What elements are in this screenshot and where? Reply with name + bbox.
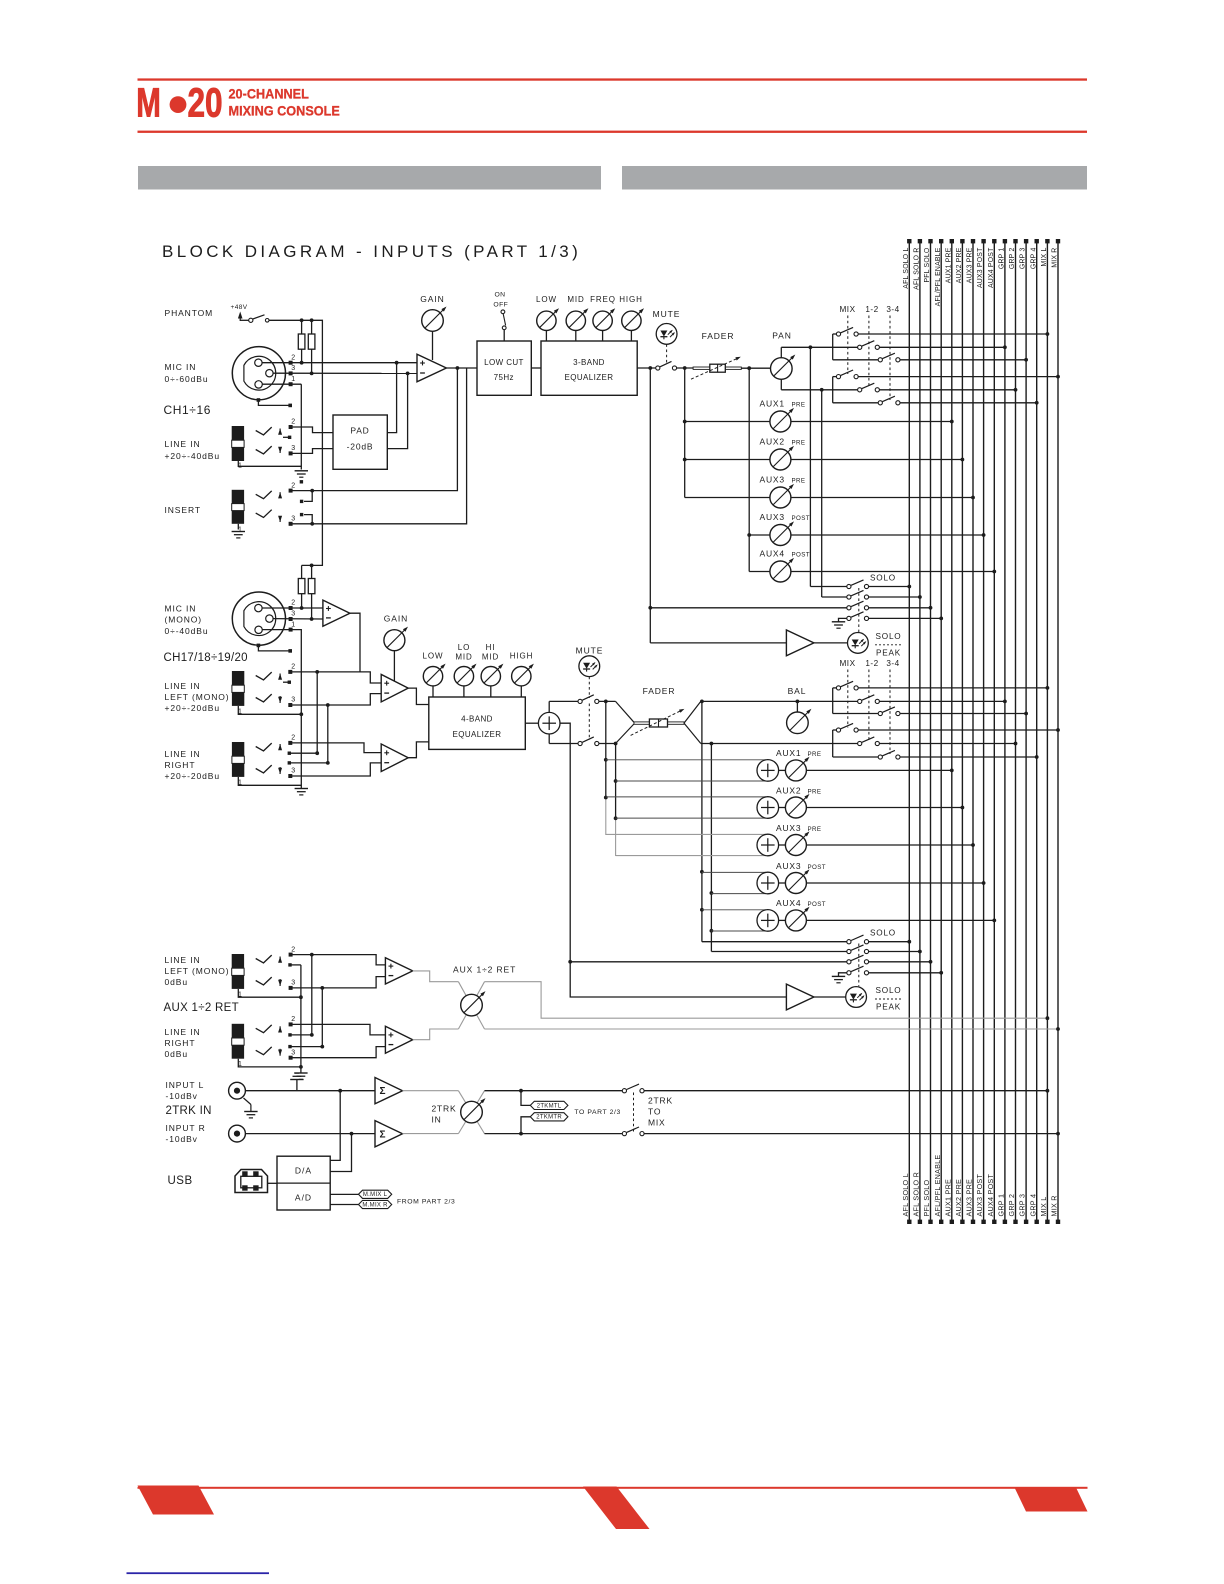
wire amp1 to 4band EQ — [408, 688, 429, 704]
svg-text:BAL: BAL — [788, 686, 807, 696]
wire PAD out hot — [387, 361, 398, 433]
svg-text:0÷-40dBu: 0÷-40dBu — [165, 626, 209, 636]
resistor phantom mono R3 — [298, 565, 305, 609]
sum amp 2TRK R — [375, 1121, 403, 1147]
bus line AFL SOLO L — [901, 239, 912, 1224]
label LINE IN LEFT MONO — [165, 681, 230, 713]
svg-text:RIGHT: RIGHT — [165, 1038, 196, 1048]
svg-text:2TKMTR: 2TKMTR — [536, 1115, 562, 1121]
footer red rule — [138, 1487, 1088, 1489]
svg-text:OFF: OFF — [493, 302, 508, 309]
svg-text:HIGH: HIGH — [510, 652, 534, 661]
ground mono line jacks — [295, 789, 308, 795]
logo subtitle 20-CHANNEL MIXING CONSOLE — [229, 86, 341, 119]
svg-text:AFL SOLO R: AFL SOLO R — [914, 248, 921, 290]
svg-text:GRP 1: GRP 1 — [997, 1194, 1006, 1217]
svg-text:3-4: 3-4 — [886, 659, 899, 668]
ground insert — [232, 532, 245, 538]
wire aux ret to MIX R bus — [485, 1027, 1060, 1031]
mute switch L MONO — [578, 695, 599, 704]
MIX 1-2 3-4 switch labels CH1-16 — [839, 305, 899, 400]
wire post-fade feed CH1-16 — [748, 368, 750, 571]
svg-text:2: 2 — [291, 354, 295, 361]
svg-text:MUTE: MUTE — [653, 309, 681, 319]
LED MUTE CH1-16 — [653, 309, 681, 365]
svg-text:2TKMTL: 2TKMTL — [537, 1103, 562, 1109]
wire 2trk R to MIX R bus — [644, 1132, 1060, 1136]
svg-text:MIXING CONSOLE: MIXING CONSOLE — [229, 103, 341, 119]
svg-text:AUX1 PRE: AUX1 PRE — [943, 1179, 952, 1217]
knob AUX3 PRE CH1-16 — [685, 474, 975, 508]
wire EQ to sum — [525, 722, 538, 724]
fader CH1-16 — [691, 331, 741, 379]
svg-text:+20÷-40dBu: +20÷-40dBu — [165, 451, 221, 461]
svg-text:MIX: MIX — [648, 1118, 666, 1128]
svg-text:AUX3 POST: AUX3 POST — [977, 247, 984, 288]
knob GAIN MONO — [384, 614, 408, 682]
svg-text:USB: USB — [168, 1175, 193, 1187]
wire 2trk R to cross — [403, 1133, 459, 1135]
XLR connector MIC IN MONO — [232, 592, 285, 645]
svg-text:LINE IN: LINE IN — [165, 955, 201, 965]
label INPUT L -10dBv — [166, 1080, 205, 1101]
label LINE IN LEFT 0dBu — [165, 955, 230, 987]
svg-text:(MONO): (MONO) — [165, 615, 203, 625]
sum amp 2TRK L — [375, 1078, 403, 1104]
svg-text:PRE: PRE — [808, 751, 822, 758]
svg-text:GAIN: GAIN — [384, 614, 408, 624]
svg-text:3: 3 — [291, 611, 295, 618]
resistor phantom R2 — [308, 320, 315, 375]
svg-text:Σ: Σ — [380, 1086, 386, 1097]
svg-text:INPUT L: INPUT L — [166, 1080, 205, 1090]
svg-text:MIX R: MIX R — [1052, 248, 1059, 268]
jack INSERT — [232, 480, 314, 533]
XLR pin 2 wire to preamp + — [263, 354, 418, 364]
svg-text:2TRK: 2TRK — [648, 1095, 673, 1105]
svg-text:TO: TO — [648, 1107, 661, 1117]
wire DA out L — [330, 1091, 340, 1161]
svg-text:0÷-60dBu: 0÷-60dBu — [165, 374, 209, 384]
op-amp solo CH1-16 — [650, 630, 847, 656]
label LINE IN +20--40dBu — [165, 439, 221, 461]
svg-text:0dBu: 0dBu — [165, 1049, 188, 1059]
wire aux ret R tip to amp — [291, 1024, 386, 1035]
knob AUX2 PRE CH1-16 — [683, 436, 965, 470]
bus line AFL/PFL ENABLE — [933, 239, 944, 1224]
svg-text:LOW: LOW — [536, 295, 557, 304]
solo switch group CH1-16 — [648, 574, 943, 633]
knob AUX2 PRE MONO with sum — [606, 785, 965, 818]
svg-text:AUX3: AUX3 — [760, 474, 785, 484]
svg-text:20-CHANNEL: 20-CHANNEL — [229, 86, 309, 102]
wire aux ret L ring to amp — [291, 977, 386, 990]
wire 2trk L to switch — [485, 1089, 623, 1093]
svg-text:GAIN: GAIN — [420, 294, 444, 304]
svg-text:2: 2 — [291, 1016, 295, 1023]
knob AUX3 POST CH1-16 — [747, 512, 985, 546]
svg-text:HI: HI — [486, 643, 496, 652]
header top rule — [138, 78, 1088, 80]
wire R tip to amp2 — [290, 743, 381, 753]
XLR mono shell wire — [257, 644, 292, 653]
wire pre-fade feed CH1-16 — [649, 368, 651, 643]
footer red parallelogram left — [138, 1486, 215, 1515]
svg-text:MIX: MIX — [839, 305, 855, 314]
svg-text:AFL/PFL ENABLE: AFL/PFL ENABLE — [935, 247, 942, 306]
svg-text:MIX L: MIX L — [1039, 1196, 1048, 1216]
XLR connector MIC IN CH1-16 — [232, 347, 285, 400]
svg-text:MIC IN: MIC IN — [165, 362, 197, 372]
svg-text:LOW CUT: LOW CUT — [484, 358, 524, 367]
jack LINE IN RIGHT — [232, 735, 328, 787]
svg-text:AFL SOLO L: AFL SOLO L — [903, 248, 910, 289]
knob GAIN CH1-16 — [420, 294, 446, 360]
svg-text:MUTE: MUTE — [576, 646, 604, 656]
svg-text:MIX R: MIX R — [1050, 1195, 1059, 1216]
svg-text:PAN: PAN — [772, 331, 792, 341]
wire mic preamp out — [350, 613, 360, 672]
svg-text:POST: POST — [792, 551, 810, 558]
wire pre-fade L feed MONO — [604, 701, 608, 835]
svg-text:GRP 3: GRP 3 — [1018, 1194, 1027, 1217]
wire line ring to PAD — [291, 449, 333, 454]
svg-text:AUX3: AUX3 — [760, 512, 785, 522]
svg-text:CH17/18÷19/20: CH17/18÷19/20 — [164, 652, 248, 664]
svg-text:LEFT (MONO): LEFT (MONO) — [165, 966, 230, 976]
knob LOW eq MONO — [423, 652, 446, 698]
label MIC IN 0--60dBu — [165, 362, 209, 384]
svg-text:3: 3 — [291, 768, 295, 775]
svg-text:3: 3 — [291, 445, 295, 452]
knob HIGH eq CH1-16 — [619, 295, 644, 341]
knob AUX4 POST CH1-16 — [749, 548, 996, 582]
label 2TRK IN knob — [432, 1104, 457, 1125]
tag M.MIX L — [330, 1190, 392, 1198]
wire fader L out — [700, 700, 833, 704]
MIX switch group MONO — [833, 681, 1060, 759]
svg-text:GRP 4: GRP 4 — [1030, 248, 1037, 270]
wire preamp out to LOW CUT — [446, 366, 477, 370]
knob 2TRK IN — [458, 1091, 485, 1134]
wire sum split LR — [549, 701, 578, 743]
svg-text:MIX L: MIX L — [1041, 248, 1048, 267]
knob HI MID eq MONO — [481, 643, 503, 697]
svg-text:20: 20 — [188, 80, 223, 126]
label MIC IN MONO — [165, 604, 209, 637]
jack LINE IN RIGHT aux ret — [232, 1016, 323, 1069]
PAD -20dB box — [333, 415, 387, 469]
svg-text:GRP 4: GRP 4 — [1028, 1194, 1037, 1217]
svg-text:AUX2 PRE: AUX2 PRE — [954, 1179, 963, 1217]
svg-text:+20÷-20dBu: +20÷-20dBu — [165, 771, 221, 781]
bus line MIX L — [1039, 239, 1050, 1224]
svg-text:POST: POST — [808, 901, 826, 908]
svg-text:AUX 1÷2 RET: AUX 1÷2 RET — [453, 965, 516, 975]
svg-text:MID: MID — [455, 653, 472, 662]
knob BAL — [787, 686, 812, 734]
svg-text:2: 2 — [291, 482, 295, 489]
wire pre-fade R feed MONO — [614, 744, 618, 857]
svg-text:AFL SOLO R: AFL SOLO R — [912, 1172, 921, 1217]
wire 2trk R to switch — [485, 1132, 623, 1136]
svg-text:AUX1: AUX1 — [760, 398, 785, 408]
svg-text:HIGH: HIGH — [619, 295, 643, 304]
tag 2TKMTL — [521, 1091, 568, 1110]
wire amp2 to 4band EQ — [408, 742, 429, 758]
knob AUX1 PRE MONO with sum — [606, 748, 954, 781]
wire aux ret to MIX L bus — [485, 982, 1050, 1020]
wire cross aux ret tip — [310, 955, 314, 1037]
bus line AUX3 PRE — [965, 239, 976, 1224]
ground line-in CH1-16 — [295, 471, 308, 477]
jack LINE IN LEFT aux ret — [232, 946, 303, 999]
MIX switch group CH1-16 — [833, 327, 1060, 405]
jack LINE IN LEFT MONO — [232, 664, 303, 717]
svg-text:CH1÷16: CH1÷16 — [164, 403, 212, 417]
svg-text:AUX1 PRE: AUX1 PRE — [945, 247, 952, 283]
op-amp line R MONO — [381, 744, 408, 772]
LED SOLO PEAK CH1-16 — [848, 632, 903, 658]
svg-text:MIX: MIX — [839, 659, 855, 668]
wire R ring to amp2 — [290, 763, 381, 776]
MIX 1-2 3-4 switch labels MONO — [839, 659, 899, 754]
tag 2TKMTR — [521, 1113, 568, 1134]
svg-text:AUX 1÷2 RET: AUX 1÷2 RET — [164, 1002, 239, 1014]
logo M-20 — [136, 80, 222, 126]
knob HIGH eq MONO — [510, 652, 534, 698]
footer red parallelogram right — [1015, 1488, 1088, 1512]
bus line AUX3 POST — [975, 239, 986, 1224]
wire sum to PFL tap — [560, 723, 786, 997]
wire post-mute feed CH1-16 — [684, 368, 686, 498]
svg-text:MID: MID — [567, 295, 584, 304]
svg-text:3: 3 — [291, 1049, 295, 1056]
op-amp aux ret L — [385, 958, 412, 984]
LED SOLO PEAK MONO — [846, 986, 902, 1012]
svg-text:EQUALIZER: EQUALIZER — [565, 373, 614, 382]
svg-text:1-2: 1-2 — [865, 659, 878, 668]
svg-text:PRE: PRE — [792, 439, 806, 446]
wire DA out R — [330, 1134, 351, 1172]
op-amp aux ret R — [385, 1026, 412, 1053]
svg-text:IN: IN — [432, 1115, 442, 1125]
svg-text:3: 3 — [291, 516, 295, 523]
ground solo MONO — [832, 976, 845, 982]
wire line tip to PAD — [291, 427, 333, 433]
jack LINE IN CH1-16 — [232, 419, 302, 470]
svg-text:LEFT (MONO): LEFT (MONO) — [165, 692, 230, 702]
knob AUX1 PRE CH1-16 — [683, 398, 954, 432]
knob FREQ eq CH1-16 — [590, 295, 616, 341]
ground input R shield — [244, 1098, 258, 1118]
svg-text:75Hz: 75Hz — [494, 373, 514, 382]
svg-text:M.MIX L: M.MIX L — [363, 1192, 388, 1198]
wire cross L to R ring — [326, 705, 330, 765]
svg-text:3-4: 3-4 — [886, 305, 899, 314]
LOW CUT 75Hz box — [477, 341, 531, 395]
knob PAN — [771, 331, 796, 380]
wire insert send — [291, 368, 457, 491]
PAN output loop wires — [781, 345, 832, 391]
4-BAND EQUALIZER box — [429, 697, 526, 749]
bus line GRP 2 — [1007, 239, 1018, 1224]
wire cross aux ret ring — [320, 988, 324, 1049]
svg-text:GRP 1: GRP 1 — [999, 248, 1006, 270]
svg-text:LINE IN: LINE IN — [165, 1027, 201, 1037]
svg-text:MIC IN: MIC IN — [165, 604, 197, 614]
svg-text:AUX2: AUX2 — [776, 785, 801, 795]
knob AUX3 POST MONO with sum — [702, 861, 986, 894]
wire aux ret L tip to amp — [291, 953, 386, 965]
wire PAD out cold — [387, 372, 409, 449]
svg-text:SOLO: SOLO — [870, 574, 896, 583]
svg-text:2TRK: 2TRK — [432, 1104, 457, 1114]
svg-text:POST: POST — [808, 864, 826, 871]
wire L ring to amp1 — [290, 694, 381, 707]
svg-text:1-2: 1-2 — [865, 305, 878, 314]
wire L tip to amp1 — [290, 670, 381, 683]
svg-text:3: 3 — [291, 365, 295, 372]
svg-text:Σ: Σ — [380, 1129, 386, 1140]
op-amp mic preamp MONO — [323, 600, 350, 626]
svg-text:RIGHT: RIGHT — [165, 760, 196, 770]
ground aux ret jacks — [294, 965, 307, 1080]
svg-text:TO PART 2/3: TO PART 2/3 — [574, 1109, 621, 1116]
label LINE IN RIGHT — [165, 749, 221, 781]
svg-text:3: 3 — [291, 697, 295, 704]
svg-text:ON: ON — [495, 292, 506, 299]
svg-text:LINE IN: LINE IN — [165, 749, 201, 759]
svg-text:PEAK: PEAK — [876, 1003, 901, 1012]
svg-text:AUX2: AUX2 — [760, 436, 785, 446]
sum circle MONO — [538, 712, 560, 734]
svg-text:PAD: PAD — [350, 426, 369, 436]
knob LO MID eq MONO — [454, 643, 476, 697]
knob MID eq CH1-16 — [566, 295, 588, 341]
bus line AFL SOLO R — [912, 239, 923, 1224]
bus line AUX4 POST — [986, 239, 997, 1224]
wire mute L to fader — [599, 700, 616, 704]
svg-text:1: 1 — [291, 621, 295, 628]
svg-text:PFL SOLO: PFL SOLO — [924, 247, 931, 282]
gray bar right — [622, 166, 1087, 190]
svg-text:SOLO: SOLO — [870, 929, 896, 938]
svg-text:GRP 3: GRP 3 — [1020, 248, 1027, 270]
wire 2trk L to MIX L bus — [644, 1089, 1049, 1093]
svg-text:LINE IN: LINE IN — [165, 439, 201, 449]
wire phantom feed — [269, 318, 322, 567]
svg-text:2: 2 — [291, 419, 295, 426]
RCA INPUT R connector — [229, 1125, 246, 1142]
wire aux ret L to cross — [413, 971, 459, 982]
phantom switch — [240, 315, 269, 323]
svg-text:SOLO: SOLO — [876, 632, 902, 641]
svg-text:LOW: LOW — [423, 652, 444, 661]
resistor phantom R1 — [298, 320, 305, 364]
label 2TRK TO MIX — [648, 1095, 673, 1127]
ON OFF switch low cut — [493, 292, 508, 342]
svg-text:2: 2 — [291, 664, 295, 671]
svg-text:AUX3: AUX3 — [776, 861, 801, 871]
svg-text:2: 2 — [291, 735, 295, 742]
svg-text:A/D: A/D — [295, 1193, 312, 1203]
gray bar left — [138, 166, 601, 190]
bus line MIX R — [1050, 239, 1061, 1224]
svg-text:3: 3 — [291, 980, 295, 987]
svg-text:2: 2 — [291, 600, 295, 607]
svg-text:PRE: PRE — [808, 826, 822, 833]
svg-text:FREQ: FREQ — [590, 295, 616, 304]
svg-text:AUX2 PRE: AUX2 PRE — [956, 247, 963, 283]
svg-text:INSERT: INSERT — [165, 505, 201, 515]
svg-text:PFL SOLO: PFL SOLO — [922, 1179, 931, 1216]
D/A A/D box — [277, 1156, 330, 1210]
svg-text:M: M — [136, 80, 161, 126]
header bottom rule — [138, 131, 1088, 133]
svg-text:EQUALIZER: EQUALIZER — [453, 730, 502, 739]
+48V supply — [231, 304, 248, 321]
svg-text:PEAK: PEAK — [876, 649, 901, 658]
fader MONO — [616, 686, 701, 744]
svg-text:PRE: PRE — [808, 788, 822, 795]
svg-text:GRP 2: GRP 2 — [1009, 248, 1016, 270]
svg-text:3-BAND: 3-BAND — [573, 358, 605, 367]
svg-text:AFL SOLO L: AFL SOLO L — [901, 1173, 910, 1216]
bus line GRP 1 — [997, 239, 1008, 1224]
svg-text:AUX4: AUX4 — [776, 898, 801, 908]
label INPUT R -10dBv — [166, 1123, 206, 1144]
svg-text:AUX1: AUX1 — [776, 748, 801, 758]
knob AUX 1-2 RET — [458, 982, 485, 1029]
svg-text:AUX4: AUX4 — [760, 548, 785, 558]
svg-text:+20÷-20dBu: +20÷-20dBu — [165, 703, 221, 713]
wire post-fade R feed MONO — [710, 744, 714, 952]
svg-text:+48V: +48V — [231, 304, 248, 311]
wire fader R out — [701, 742, 833, 746]
svg-text:1: 1 — [291, 376, 295, 383]
svg-text:AUX4 POST: AUX4 POST — [986, 1174, 995, 1217]
wire cross L to R tip — [315, 672, 319, 755]
mute switch R MONO — [578, 737, 599, 746]
knob LOW eq CH1-16 — [536, 295, 559, 341]
solo switch group MONO — [568, 929, 943, 987]
XLR pin 1 wire to ground — [262, 376, 301, 470]
label LINE IN RIGHT 0dBu — [165, 1027, 201, 1059]
XLR shell chassis wire — [257, 398, 292, 407]
svg-text:GRP 2: GRP 2 — [1007, 1194, 1016, 1217]
bus line AUX2 PRE — [954, 239, 965, 1224]
resistor phantom mono R4 — [308, 565, 315, 620]
svg-text:BLOCK DIAGRAM - INPUTS (PART 1: BLOCK DIAGRAM - INPUTS (PART 1/3) — [162, 242, 581, 261]
wire fader to PAN — [741, 366, 770, 370]
svg-text:-10dBv: -10dBv — [166, 1134, 198, 1144]
wire mute to fader — [677, 366, 693, 370]
svg-text:PRE: PRE — [792, 477, 806, 484]
svg-text:AUX3 POST: AUX3 POST — [975, 1174, 984, 1217]
ground solo CH1-16 — [832, 622, 845, 628]
svg-text:FADER: FADER — [643, 686, 676, 696]
XLR pin 3 wire to preamp - — [274, 365, 418, 375]
footer blue rule — [127, 1572, 270, 1574]
wire post-fade L feed MONO — [700, 701, 704, 941]
svg-text:AUX3 PRE: AUX3 PRE — [965, 1179, 974, 1217]
svg-text:AUX3 PRE: AUX3 PRE — [967, 247, 974, 283]
svg-text:FADER: FADER — [702, 331, 735, 341]
footer red parallelogram middle — [583, 1487, 650, 1530]
svg-text:2: 2 — [291, 946, 295, 953]
op-amp mic preamp CH1-16 — [417, 354, 446, 382]
